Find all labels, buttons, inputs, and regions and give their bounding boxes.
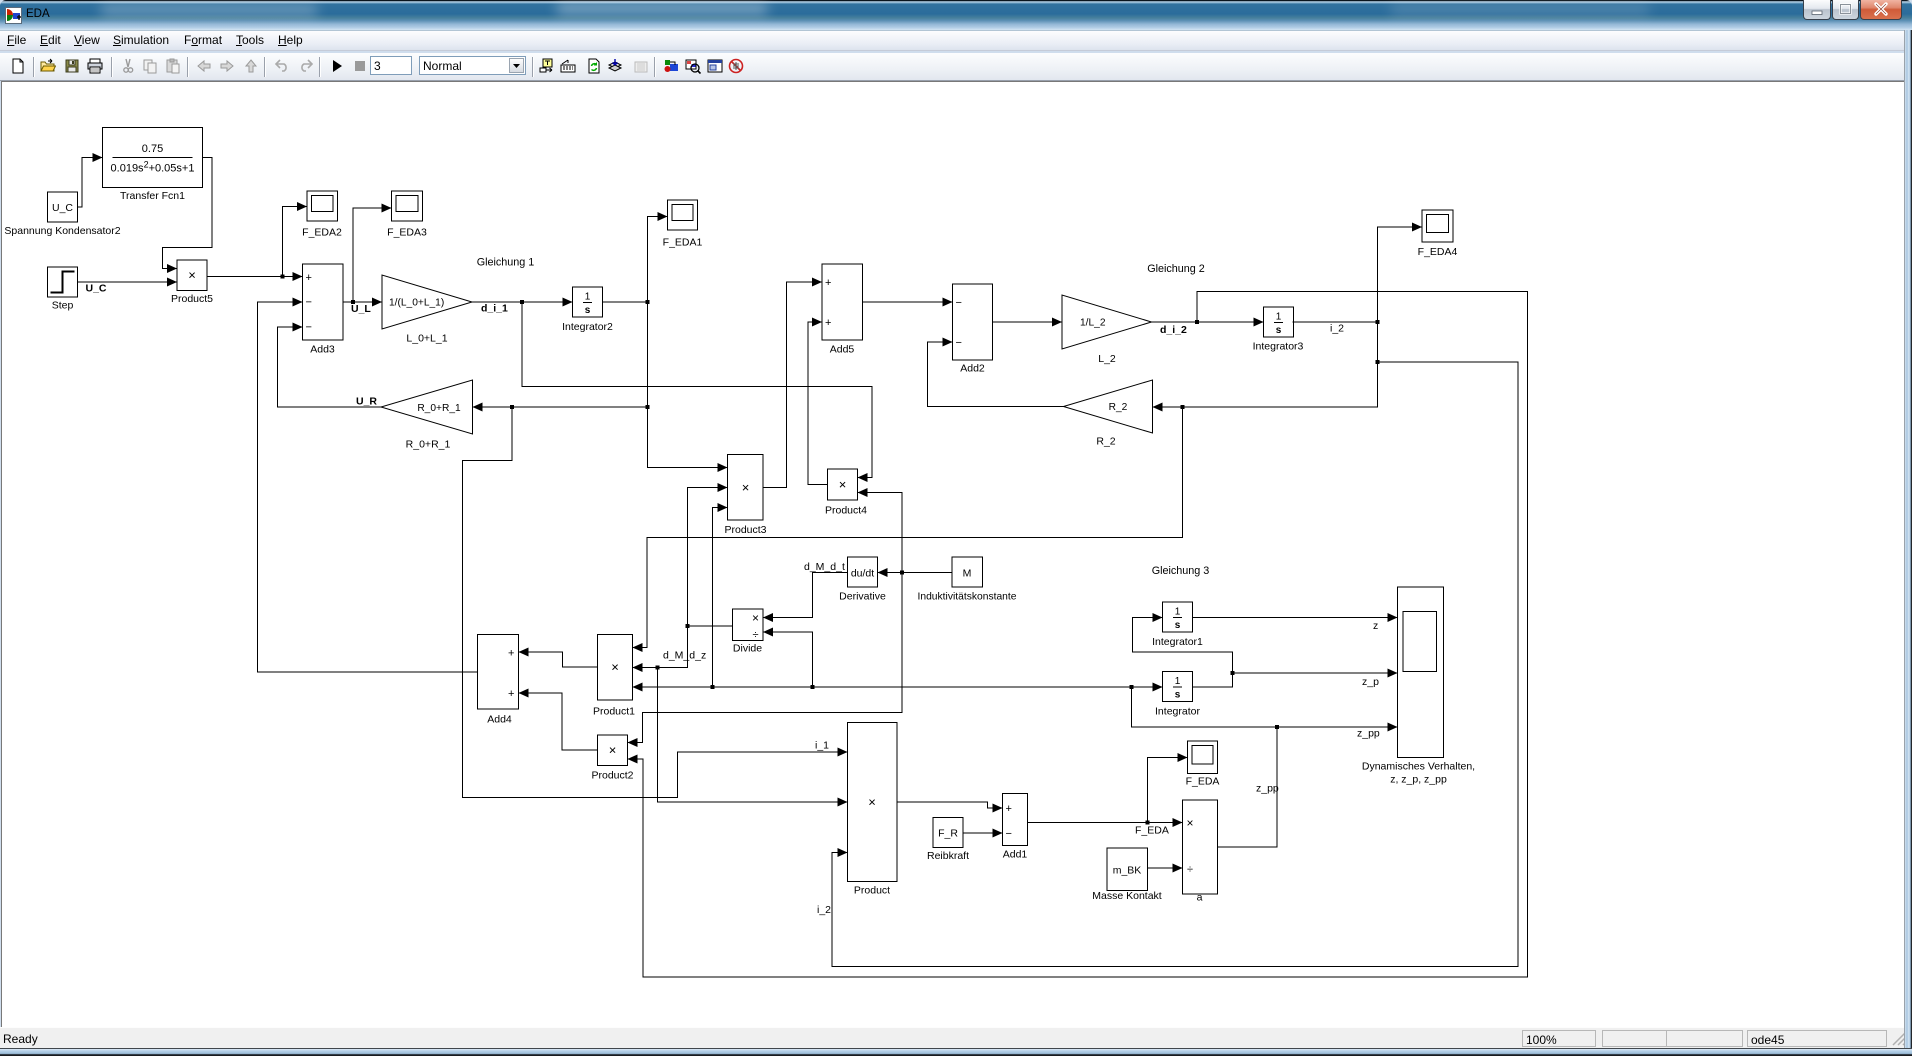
window icon	[5, 7, 22, 24]
svg-text:s: s	[1175, 620, 1181, 631]
mode dropdown	[419, 56, 526, 75]
integrator Integrator1	[1163, 602, 1193, 632]
svg-text:1/(L_0+L_1): 1/(L_0+L_1)	[389, 298, 444, 309]
junction d_M_d_z	[686, 624, 690, 628]
svg-text:d_i_1: d_i_1	[481, 303, 508, 315]
block Transfer Fcn1	[103, 128, 203, 188]
svg-text:Integrator3: Integrator3	[1253, 341, 1304, 353]
svg-text:z_p: z_p	[1362, 676, 1379, 688]
wire branch to scope F_EDA2	[283, 207, 308, 277]
wire z_pp left to Product1 in3	[633, 686, 1132, 688]
block Product2 (mirrored)	[598, 735, 628, 766]
junction U_L branch	[351, 300, 355, 304]
gain R_0+R_1	[381, 380, 473, 434]
svg-text:s: s	[1276, 325, 1282, 336]
svg-text:Gleichung 3: Gleichung 3	[1152, 565, 1210, 577]
svg-text:−: −	[306, 297, 312, 309]
svg-text:F_EDA1: F_EDA1	[663, 237, 703, 249]
svg-text:d_M_d_t: d_M_d_t	[804, 561, 845, 573]
wire Divide output, signal d_M_d_z	[688, 625, 733, 627]
svg-text:L_0+L_1: L_0+L_1	[406, 333, 447, 345]
svg-text:Masse Kontakt: Masse Kontakt	[1092, 890, 1162, 902]
svg-text:F_EDA4: F_EDA4	[1418, 246, 1458, 258]
svg-text:R_2: R_2	[1109, 402, 1128, 413]
wire M branch to Product2 in1	[628, 573, 903, 743]
wire Product3 to Add5 in1	[763, 282, 822, 488]
svg-text:−: −	[1006, 828, 1012, 840]
wire F_EDA branch to scope F_EDA	[1148, 758, 1188, 823]
svg-text:U_C: U_C	[86, 283, 107, 295]
wire i_2 branch to Product1 in1	[633, 407, 1183, 648]
wire Product to Add1 in1	[897, 802, 1003, 808]
junction i_1 to Product chain	[510, 405, 514, 409]
block Reibkraft (constant F_R)	[933, 818, 963, 848]
svg-text:1: 1	[585, 292, 591, 303]
wire z_p feedback to Integrator1	[1133, 618, 1233, 674]
menu bar	[0, 31, 1904, 51]
wire z_pp to Divide in2	[763, 632, 813, 687]
junction z_pp to Divide in2	[811, 685, 815, 689]
svg-text:Product5: Product5	[171, 293, 213, 305]
svg-text:1: 1	[1175, 607, 1181, 618]
wire Integrator1 output z to scope in1	[1193, 617, 1398, 619]
block Induktivitaetskonstante (constant M)	[952, 557, 983, 587]
svg-text:M: M	[963, 568, 972, 580]
svg-text:÷: ÷	[1187, 864, 1193, 876]
block Add4 (mirrored)	[478, 635, 519, 710]
wire i_1 branch to scope F_EDA1	[648, 217, 668, 303]
svg-text:R_0+R_1: R_0+R_1	[417, 403, 461, 414]
svg-text:Reibkraft: Reibkraft	[927, 850, 969, 862]
svg-text:1/L_2: 1/L_2	[1080, 318, 1106, 329]
junction i_1 at Integrator2 output	[646, 300, 650, 304]
title bar	[0, 0, 1912, 31]
gain 1/L_2	[1062, 295, 1152, 349]
junction z_pp to Product3 in3	[711, 685, 715, 689]
svg-text:F_EDA: F_EDA	[1186, 776, 1220, 788]
svg-text:Transfer Fcn1: Transfer Fcn1	[120, 190, 185, 202]
svg-text:+: +	[1006, 803, 1012, 815]
close button	[1860, 0, 1902, 20]
wire Product5 to Add3 in1	[207, 276, 303, 278]
svg-text:÷: ÷	[752, 629, 758, 641]
integrator Integrator2	[573, 287, 603, 317]
svg-text:×: ×	[752, 611, 759, 625]
svg-text:1: 1	[1175, 676, 1181, 687]
svg-text:×: ×	[742, 480, 750, 495]
wire d_i_2 long feedback to Product2 in2	[628, 292, 1528, 978]
wire Add5 to Add2 in1	[863, 301, 953, 303]
svg-text:×: ×	[868, 795, 876, 810]
svg-text:Product4: Product4	[825, 505, 867, 517]
junction i_1 to R_0+R_1 line	[646, 405, 650, 409]
wire d_M_d_z up to Product3 in2	[688, 488, 728, 627]
block Add3	[303, 264, 344, 340]
wire Add3 to gain L_0+L_1, signal U_L	[343, 301, 382, 303]
svg-text:d_M_d_z: d_M_d_z	[663, 650, 706, 662]
junction z_pp at Integrator input	[1130, 685, 1134, 689]
svg-text:F_EDA3: F_EDA3	[387, 227, 427, 239]
block Product1 (mirrored)	[598, 635, 633, 701]
svg-text:F_EDA2: F_EDA2	[302, 227, 342, 239]
block Add5	[822, 264, 863, 340]
svg-text:×: ×	[609, 743, 617, 758]
wire Integrator3 output, signal i_2	[1293, 321, 1378, 323]
wire Product4 to Add5 in2	[808, 322, 828, 485]
status bar	[0, 1027, 1905, 1048]
svg-text:−: −	[956, 297, 962, 309]
svg-text:Spannung Kondensator2: Spannung Kondensator2	[4, 225, 120, 237]
wire Masse Kontakt to block a in2	[1148, 867, 1183, 869]
wire M branch to Product4 in2	[858, 493, 903, 573]
svg-text:×: ×	[611, 660, 619, 675]
svg-text:Product: Product	[854, 885, 890, 897]
svg-text:Add3: Add3	[310, 344, 335, 356]
block Derivative (du/dt)	[848, 557, 878, 587]
wire Step to Product5 in2, signal U_C	[78, 281, 178, 283]
svg-text:−: −	[306, 322, 312, 334]
svg-text:s: s	[1175, 690, 1181, 701]
svg-text:a: a	[1197, 892, 1203, 904]
wire Add4 to Add3 in2	[258, 302, 478, 672]
wire Transfer Fcn1 to Product5 in1	[163, 158, 213, 269]
block Product4	[828, 469, 858, 500]
svg-text:Add2: Add2	[960, 363, 985, 375]
junction z_p	[1231, 671, 1235, 675]
wire gain 1/L_2 to Integrator3, signal d_i_2	[1152, 321, 1264, 323]
integrator Integrator3	[1264, 307, 1294, 337]
svg-text:Product1: Product1	[593, 706, 635, 718]
svg-text:U_L: U_L	[351, 303, 371, 315]
svg-text:i_2: i_2	[817, 904, 831, 916]
block Product3	[728, 455, 764, 521]
toolbar	[0, 53, 1904, 81]
junction d_i_1 branch	[520, 300, 524, 304]
svg-text:F_EDA: F_EDA	[1135, 825, 1169, 837]
wire i_2 branch to scope F_EDA4	[1378, 227, 1423, 322]
svg-text:U_R: U_R	[356, 396, 377, 408]
maximize button	[1832, 0, 1859, 20]
block Masse Kontakt (constant m_BK)	[1107, 848, 1148, 891]
svg-text:U_C: U_C	[52, 202, 73, 214]
wire Product2 to Add4 in2	[519, 693, 598, 750]
svg-text:Add5: Add5	[830, 344, 855, 356]
wire Add2 to gain 1/L_2	[993, 321, 1063, 323]
svg-text:−: −	[956, 337, 962, 349]
block Add1	[1003, 794, 1028, 846]
wire z_pp into Integrator	[1132, 686, 1163, 688]
junction i_2 at Integrator3 output	[1376, 320, 1380, 324]
svg-text:+: +	[508, 688, 514, 700]
block a (divide F_EDA/m_BK)	[1183, 800, 1218, 894]
wire Add1 to block a, signal F_EDA	[1028, 822, 1183, 824]
wire Integrator2 output, signal i_1	[603, 301, 648, 303]
svg-text:R_0+R_1: R_0+R_1	[406, 439, 451, 451]
svg-text:Dynamisches Verhalten,: Dynamisches Verhalten,	[1362, 761, 1475, 773]
svg-text:Integrator2: Integrator2	[562, 321, 613, 333]
wire Product1 to Add4 in1	[519, 652, 598, 667]
junction Product5 output branch	[281, 275, 285, 279]
wire i_1 to gain R_0+R_1 input	[473, 406, 648, 408]
svg-text:×: ×	[188, 268, 196, 283]
svg-text:d_i_2: d_i_2	[1160, 324, 1187, 336]
svg-text:i_1: i_1	[815, 740, 829, 752]
svg-text:du/dt: du/dt	[851, 568, 874, 580]
scope Dynamisches Verhalten	[1398, 587, 1444, 758]
svg-text:Add4: Add4	[487, 714, 512, 726]
svg-text:s: s	[585, 305, 591, 316]
svg-text:R_2: R_2	[1096, 436, 1115, 448]
gain R_2	[1064, 380, 1153, 433]
wire z_pp to scope in3	[1277, 726, 1398, 728]
svg-text:+: +	[306, 272, 312, 284]
svg-text:1: 1	[1276, 312, 1282, 323]
svg-text:Step: Step	[52, 300, 74, 312]
wire z_pp left to Integrator	[1132, 687, 1278, 727]
wire constant M to Derivative	[878, 572, 953, 574]
junction d_i_2 branch	[1195, 320, 1199, 324]
junction F_EDA branch	[1146, 821, 1150, 825]
svg-text:×: ×	[839, 477, 847, 492]
svg-text:+: +	[825, 317, 831, 329]
svg-text:0.019s2+0.05s+1: 0.019s2+0.05s+1	[111, 160, 195, 175]
svg-text:+: +	[508, 648, 514, 660]
block Product5	[177, 260, 207, 291]
junction z_pp at scope line	[1275, 725, 1279, 729]
scope F_EDA4	[1422, 210, 1453, 242]
junction M output	[900, 571, 904, 575]
block Add2	[953, 284, 993, 360]
svg-text:z: z	[1373, 620, 1378, 632]
block Spannung Kondensator2 (constant U_C)	[48, 192, 78, 222]
svg-text:×: ×	[1186, 816, 1193, 830]
svg-text:Induktivitätskonstante: Induktivitätskonstante	[918, 591, 1017, 603]
minimize button	[1803, 0, 1831, 20]
wire gain R_2 to Add2 in2	[928, 342, 1064, 407]
block Step	[48, 267, 78, 297]
wire U_C to Transfer Fcn1	[78, 158, 103, 208]
junction i_2 big loop	[1376, 360, 1380, 364]
integrator Integrator	[1163, 672, 1193, 702]
svg-text:i_2: i_2	[1330, 323, 1344, 335]
svg-text:Integrator1: Integrator1	[1152, 636, 1203, 648]
svg-text:Gleichung 1: Gleichung 1	[477, 257, 535, 269]
wire d_M_d_z to Product1 in2	[633, 626, 688, 668]
scope F_EDA3	[392, 191, 423, 221]
wire gain R_0+R_1 to Add3 in3, signal U_R	[278, 327, 382, 407]
wire Integrator output z_p	[1193, 673, 1233, 687]
junction i_2 to Product1 branch	[1181, 405, 1185, 409]
scope F_EDA2	[307, 191, 338, 221]
svg-text:L_2: L_2	[1098, 353, 1116, 365]
wire i_1 down to Product3 in1	[648, 302, 728, 468]
gain L_0+L_1 (1/(L_0+L_1))	[382, 275, 472, 329]
junction d_M_d_z branch	[656, 666, 660, 670]
svg-text:z, z_p, z_pp: z, z_p, z_pp	[1390, 774, 1447, 786]
svg-text:m_BK: m_BK	[1113, 865, 1142, 877]
svg-text:0.75: 0.75	[142, 143, 163, 155]
wire i_2 long branch to Product in3	[832, 362, 1518, 967]
wire i_1 long branch to Product in1	[463, 407, 848, 798]
svg-text:Derivative: Derivative	[839, 591, 886, 603]
wire gain L_0+L_1 to Integrator2, signal d_i_1	[472, 301, 573, 303]
scope F_EDA	[1188, 741, 1218, 774]
block Product (3-input)	[848, 723, 898, 882]
svg-text:F_R: F_R	[938, 828, 958, 840]
svg-text:Product3: Product3	[724, 524, 766, 536]
svg-text:Integrator: Integrator	[1155, 706, 1200, 718]
sim time box	[370, 56, 412, 75]
wire z_p to scope in2	[1233, 672, 1398, 674]
wire z_pp up to Product3 in3	[713, 508, 728, 688]
wire a output z_pp feedback	[1218, 727, 1278, 847]
svg-text:Divide: Divide	[733, 643, 762, 655]
wire d_i_1 branch to Product4 in1	[522, 302, 872, 478]
svg-text:z_pp: z_pp	[1357, 728, 1380, 740]
svg-text:Product2: Product2	[591, 770, 633, 782]
scope F_EDA1	[668, 200, 698, 230]
svg-text:Add1: Add1	[1003, 849, 1028, 861]
wire i_2 down to gain R_2 input	[1153, 322, 1378, 407]
svg-text:Gleichung 2: Gleichung 2	[1147, 263, 1205, 275]
wire Derivative to Divide in1, signal d_M_d_t	[763, 573, 848, 618]
wire d_M_d_z down to Product in2	[658, 668, 848, 803]
block Divide	[733, 609, 764, 641]
wire Reibkraft to Add1 in2	[963, 832, 1003, 834]
svg-text:z_pp: z_pp	[1256, 783, 1279, 795]
wire branch to scope F_EDA3	[353, 208, 392, 302]
svg-text:+: +	[825, 277, 831, 289]
